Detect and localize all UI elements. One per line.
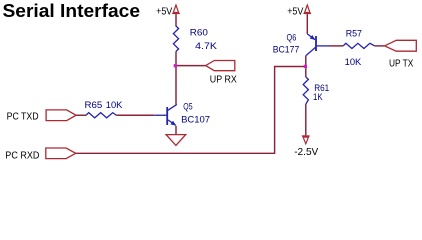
port UP TX bbox=[385, 40, 417, 51]
power symbol +5V (left) bbox=[172, 5, 180, 15]
wire R60 to Q5 collector bbox=[175, 51, 177, 104]
svg-text:BC177: BC177 bbox=[273, 45, 300, 55]
junction node (right) bbox=[304, 65, 307, 68]
resistor R61 bbox=[303, 77, 308, 104]
svg-text:R57: R57 bbox=[346, 28, 362, 38]
wire +5V to Q6 emitter bbox=[306, 15, 308, 34]
svg-text:Q6: Q6 bbox=[287, 33, 297, 43]
wire R61 to -2.5V bbox=[305, 104, 307, 135]
svg-text:Q5: Q5 bbox=[183, 101, 192, 111]
svg-text:10K: 10K bbox=[345, 57, 362, 67]
svg-text:PC TXD: PC TXD bbox=[7, 110, 39, 122]
junction node (left) bbox=[174, 64, 177, 67]
transistor Q5 emitter lead bbox=[168, 120, 176, 125]
port PC TXD bbox=[46, 110, 76, 121]
transistor Q5 bar bbox=[166, 107, 168, 125]
svg-text:10K: 10K bbox=[106, 100, 123, 110]
resistor R65 bbox=[86, 113, 116, 118]
wire junction to port UP RX bbox=[176, 65, 206, 67]
svg-text:BC107: BC107 bbox=[181, 114, 210, 124]
svg-text:1K: 1K bbox=[313, 92, 323, 102]
wire PC RXD to junction (right) bbox=[76, 67, 306, 154]
port PC RXD bbox=[46, 148, 76, 159]
transistor Q6 emitter lead bbox=[307, 34, 315, 40]
wire Q6 base to R57 bbox=[329, 45, 343, 47]
svg-text:PC RXD: PC RXD bbox=[5, 149, 39, 161]
transistor Q5 emitter arrow bbox=[171, 121, 177, 126]
wire Q6 collector to R61 bbox=[305, 56, 307, 77]
resistor R57 bbox=[343, 43, 375, 48]
wire port PC TXD to R65 bbox=[76, 114, 86, 116]
transistor Q6 base lead bbox=[317, 45, 329, 47]
svg-text:Serial Interface: Serial Interface bbox=[3, 1, 141, 21]
svg-text:-2.5V: -2.5V bbox=[294, 146, 318, 158]
transistor Q6 collector lead bbox=[306, 47, 316, 55]
wire R65 to Q5 base bbox=[116, 114, 154, 116]
svg-text:UP RX: UP RX bbox=[210, 74, 237, 86]
svg-text:UP TX: UP TX bbox=[389, 58, 413, 70]
transistor Q6 emitter arrow bbox=[310, 35, 316, 40]
svg-text:4.7K: 4.7K bbox=[195, 41, 217, 51]
transistor Q5 collector lead bbox=[168, 104, 177, 110]
svg-text:+5V: +5V bbox=[287, 6, 303, 18]
transistor Q5 base lead bbox=[154, 114, 166, 116]
transistor Q6 bar bbox=[315, 36, 317, 51]
resistor R60 bbox=[173, 26, 178, 51]
ground symbol bbox=[166, 135, 186, 146]
port UP RX bbox=[206, 61, 235, 71]
power symbol +5V (right) bbox=[303, 5, 311, 15]
wire R57 to port UP TX bbox=[375, 45, 385, 47]
svg-text:+5V: +5V bbox=[156, 6, 172, 18]
power symbol -2.5V bbox=[302, 136, 310, 144]
wire +5V to R60 bbox=[175, 15, 177, 27]
svg-text:R60: R60 bbox=[190, 27, 208, 37]
wire Q5 emitter to ground bbox=[175, 126, 177, 135]
svg-text:R65: R65 bbox=[85, 100, 103, 110]
